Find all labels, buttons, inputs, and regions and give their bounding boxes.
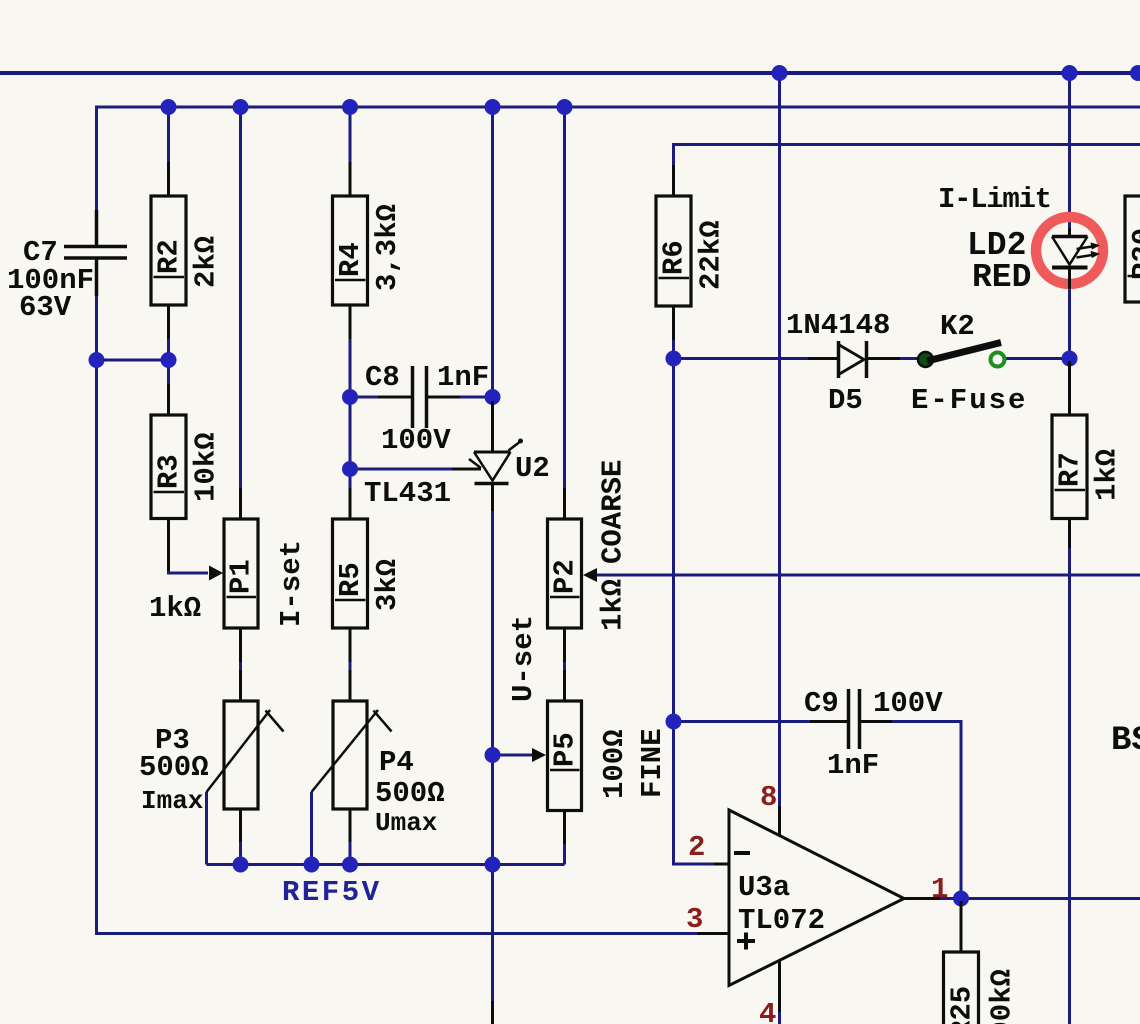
- wire top rail VCC: [0, 71, 1140, 75]
- svg-text:100V: 100V: [873, 687, 943, 720]
- junction E-fuse / R7 top: [1062, 351, 1078, 367]
- svg-text:500Ω: 500Ω: [139, 751, 209, 784]
- junction R6 bottom / E-fuse: [666, 351, 682, 367]
- svg-text:100Ω: 100Ω: [598, 729, 631, 799]
- junction R2-R3 node: [161, 352, 177, 368]
- wire FINE col to pin2: [674, 722, 715, 865]
- wire P2 to P5: [563, 659, 566, 670]
- svg-text:I-Limit: I-Limit: [938, 183, 1051, 216]
- svg-text:R4: R4: [334, 242, 367, 277]
- wire C9 right to output: [866, 722, 961, 899]
- svg-text:D5: D5: [828, 384, 863, 417]
- capacitor C9: [810, 689, 892, 749]
- svg-text:TL072: TL072: [738, 904, 825, 937]
- capacitor C7: [64, 210, 127, 296]
- svg-text:R2: R2: [153, 239, 186, 274]
- svg-text:C8: C8: [365, 361, 400, 394]
- svg-text:3kΩ: 3kΩ: [371, 559, 404, 611]
- wire R2 top: [167, 107, 170, 165]
- wire U2 col to REF5V: [491, 755, 494, 865]
- resistor R2: [151, 162, 186, 339]
- potentiometer P1: [224, 488, 258, 662]
- capacitor C8: [378, 366, 460, 428]
- junction REF5V / P4 wiper: [304, 857, 320, 873]
- svg-text:P5: P5: [549, 732, 582, 767]
- svg-text:63V: 63V: [19, 291, 72, 324]
- wire output net: [938, 897, 1140, 900]
- resistor R6: [656, 165, 691, 340]
- junction rail2 / R4: [342, 99, 358, 115]
- svg-text:R20: R20: [1127, 228, 1140, 280]
- svg-text:100V: 100V: [381, 424, 451, 457]
- svg-text:P1: P1: [225, 559, 258, 594]
- wire P1 column top: [239, 107, 242, 488]
- resistor R4: [333, 162, 368, 339]
- resistor R7: [1052, 361, 1087, 548]
- resistor R3: [151, 384, 186, 571]
- svg-text:R25: R25: [946, 986, 979, 1024]
- svg-text:U2: U2: [515, 452, 550, 485]
- wire P3 to REF5V: [239, 841, 242, 865]
- wire R2 bottom to node: [167, 338, 170, 360]
- junction C7 bottom node: [89, 352, 105, 368]
- svg-text:U3a: U3a: [738, 871, 790, 904]
- svg-text:10kΩ: 10kΩ: [190, 432, 223, 502]
- wire REF5V col down: [491, 865, 494, 1002]
- junction REF5V / P3: [233, 857, 249, 873]
- trimmer P3: [207, 670, 284, 842]
- svg-text:4: 4: [759, 998, 776, 1024]
- junction rail2 / P2 column: [557, 99, 573, 115]
- svg-text:P2: P2: [549, 559, 582, 594]
- svg-text:3: 3: [686, 903, 703, 936]
- svg-text:22kΩ: 22kΩ: [695, 220, 728, 290]
- svg-text:3,3kΩ: 3,3kΩ: [371, 204, 404, 291]
- svg-text:1nF: 1nF: [437, 361, 489, 394]
- svg-text:I-set: I-set: [275, 540, 308, 627]
- svg-text:Umax: Umax: [375, 808, 437, 838]
- wire P4 bottom to REF5V: [349, 841, 352, 865]
- wire second rail: [97, 107, 1140, 245]
- svg-text:1kΩ: 1kΩ: [1091, 449, 1124, 501]
- svg-text:BS170: BS170: [1111, 722, 1140, 760]
- junction rail2 / R2: [161, 99, 177, 115]
- junction top rail / LED column: [1062, 65, 1078, 81]
- svg-text:P4: P4: [379, 746, 414, 779]
- svg-text:REF5V: REF5V: [282, 876, 382, 909]
- svg-text:R3: R3: [153, 454, 186, 489]
- wire R4 bottom: [349, 334, 352, 397]
- wire R5 bottom to P4: [349, 659, 352, 670]
- svg-text:COARSE: COARSE: [597, 460, 630, 564]
- trimmer P4: [312, 670, 392, 842]
- wire P2 column top: [563, 107, 566, 488]
- wire LED col top: [1068, 73, 1071, 230]
- wire EFuse net: [674, 357, 811, 360]
- potentiometer P2: [548, 488, 582, 662]
- svg-text:FINE: FINE: [636, 728, 669, 798]
- resistor R25: [944, 901, 979, 1024]
- svg-text:R5: R5: [334, 562, 367, 597]
- junction FINE node: [666, 714, 682, 730]
- svg-text:8: 8: [760, 781, 777, 814]
- wire R6 bottom: [672, 336, 675, 359]
- junction top rail / pin8 column: [772, 65, 788, 81]
- svg-text:RED: RED: [972, 259, 1031, 296]
- wire R7 col down: [1068, 546, 1071, 1024]
- wire R3 bottom to P1 wiper: [169, 550, 209, 573]
- svg-text:1kΩ: 1kΩ: [149, 592, 201, 625]
- op-amp U3a TL072: [729, 810, 904, 986]
- svg-text:1N4148: 1N4148: [786, 309, 890, 342]
- svg-text:K2: K2: [940, 310, 975, 343]
- svg-text:1: 1: [931, 873, 948, 906]
- svg-text:E-Fuse: E-Fuse: [911, 384, 1027, 417]
- svg-text:R7: R7: [1054, 452, 1087, 487]
- wire P5 wiper: [493, 754, 535, 757]
- svg-text:Imax: Imax: [141, 786, 203, 816]
- wire TL431 ref: [350, 468, 452, 471]
- wire EFuse net right segment a: [898, 357, 919, 360]
- wire node row360: [97, 359, 169, 362]
- wire P4 wiper down: [310, 792, 313, 865]
- resistor R20 right edge partial: [1125, 196, 1140, 302]
- wire R3 top: [167, 360, 170, 384]
- junction REF5V / P4: [342, 857, 358, 873]
- wire P3 wiper down: [205, 792, 208, 865]
- wire C8 node to TL431 node: [349, 397, 352, 469]
- wire C8 right: [433, 396, 493, 399]
- switch K2 E-Fuse: [918, 352, 933, 367]
- svg-text:R6: R6: [658, 240, 691, 275]
- wire REF5V col bottom black stub: [491, 1001, 494, 1024]
- svg-text:C9: C9: [804, 687, 839, 720]
- junction rail2 / U2 column: [485, 99, 501, 115]
- junction REF5V / U2 column: [485, 857, 501, 873]
- wire P1 to P3: [239, 659, 242, 670]
- wire R4 top: [349, 107, 352, 165]
- wire pin4 down: [778, 1011, 781, 1024]
- resistor R5: [333, 488, 368, 662]
- junction op-amp output node: [953, 891, 969, 907]
- svg-text:1nF: 1nF: [827, 749, 879, 782]
- wire TL431 node to R5: [349, 469, 352, 488]
- wire third rail: [674, 145, 1140, 197]
- wire FINE net: [674, 720, 843, 723]
- junction P5 wiper node: [485, 747, 501, 763]
- wire P5 bottom to REF5V: [563, 841, 566, 865]
- svg-text:500Ω: 500Ω: [375, 777, 445, 810]
- junction C8 left node: [342, 389, 358, 405]
- svg-text:2: 2: [688, 831, 705, 864]
- wire P2 wiper net: [596, 574, 1140, 577]
- wire U2 column top: [491, 107, 494, 397]
- diode D5 1N4148: [808, 341, 900, 378]
- wire EFuse net right segment b: [1003, 357, 1070, 360]
- wire REF5V net: [207, 863, 565, 866]
- wire left rail lower: [97, 259, 730, 934]
- svg-text:100kΩ: 100kΩ: [986, 969, 1019, 1024]
- junction TL431 ref node: [342, 461, 358, 477]
- TL431 U2: [452, 401, 519, 511]
- svg-text:U-set: U-set: [507, 615, 540, 702]
- junction top rail right edge: [1130, 65, 1140, 81]
- LED LD2 with red marker circle: [1036, 217, 1103, 284]
- wire Vplus rail pin8: [778, 73, 781, 806]
- svg-text:TL431: TL431: [364, 477, 451, 510]
- wire LED col bottom: [1068, 287, 1071, 359]
- svg-text:2kΩ: 2kΩ: [190, 236, 223, 288]
- junction C8 right node: [485, 389, 501, 405]
- wire C8 left: [350, 396, 406, 399]
- wire U2 anode down: [491, 509, 494, 755]
- svg-text:1kΩ: 1kΩ: [597, 579, 630, 631]
- potentiometer P5: [548, 670, 582, 811]
- junction rail2 / P1 column: [233, 99, 249, 115]
- wire R6 col down: [672, 359, 675, 722]
